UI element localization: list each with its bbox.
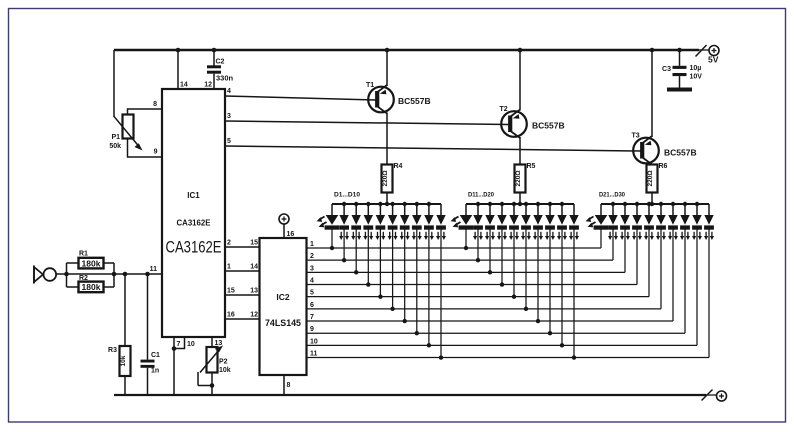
svg-text:2: 2 [227,240,231,247]
junction node on +5V rail at T1 [385,48,390,53]
svg-text:16: 16 [287,231,295,238]
svg-text:10k: 10k [120,355,127,366]
wire T1 collector to R4 [386,113,388,165]
svg-text:BC557B: BC557B [398,96,431,106]
wire 74LS145 output row 6 [307,302,662,309]
transistor T1 [366,82,431,114]
wire IC1 pins 7,10 to ground [172,337,195,395]
svg-text:74LS145: 74LS145 [265,318,302,329]
LED D9 [424,204,434,348]
LED D27 [668,204,678,321]
LED D22 [608,204,618,260]
svg-text:220Ω: 220Ω [647,170,654,186]
svg-text:14: 14 [180,82,188,89]
svg-text:15: 15 [227,288,235,295]
LED D2 [339,204,349,262]
wire IC1 pin 8 to P1 [128,101,163,115]
LED D4 [363,204,373,287]
LED D19 [557,204,567,348]
wire IC1 pin 14 to +5V [178,50,188,89]
LED D15 [509,204,519,299]
LED D18 [545,204,555,335]
svg-text:T2: T2 [500,106,508,113]
wire 74LS145 output row 3 [307,265,626,272]
svg-text:4: 4 [227,88,231,95]
svg-text:220Ω: 220Ω [515,170,522,186]
LED D12 [473,204,483,262]
svg-text:14: 14 [250,264,258,271]
svg-text:D11...D20: D11...D20 [468,192,494,199]
svg-text:10k: 10k [219,367,231,374]
svg-text:BC557B: BC557B [664,148,697,158]
svg-text:180k: 180k [82,283,102,292]
wire IC1 pin 9 to P1 [128,139,163,158]
wire T2 emitter to +5V [519,50,521,111]
wire IC1 pin 13 to P2 [212,337,222,347]
svg-text:2: 2 [310,253,314,260]
resistor R6 [647,163,668,204]
wire IC1 pin 1 to IC2 pin 14 [225,264,260,272]
svg-text:BC557B: BC557B [532,121,565,131]
svg-text:10V: 10V [690,74,703,81]
LED D7 [400,204,410,323]
svg-text:5V: 5V [708,55,719,65]
junction node on +5V rail at T3 [650,48,655,53]
wire IC1 pin 15 to IC2 pin 13 [225,288,260,296]
wire IC1 pin 4 to T1 base [225,88,376,100]
svg-text:R3: R3 [108,347,117,354]
junction node on +5V rail at pin 12 [212,48,217,53]
wire 74LS145 output row 4 [307,278,638,285]
capacitor C3 [662,50,702,88]
svg-text:1n: 1n [151,368,159,375]
svg-text:7: 7 [310,314,314,321]
node input junction [64,272,69,277]
svg-text:180k: 180k [82,259,102,268]
resistor R1 [67,251,115,269]
LED D3 [351,204,361,275]
svg-text:T1: T1 [366,82,374,89]
wire IC2 pin 8 to ground [284,375,291,395]
LED D30 [704,204,714,358]
LED D21 [586,204,609,248]
wire input node to IC1 pin 11 [56,266,162,274]
svg-text:CA3162E: CA3162E [166,239,222,257]
svg-text:7: 7 [177,341,181,348]
LED D17 [533,204,543,323]
wire T3 collector to R6 [651,164,653,166]
svg-text:R1: R1 [79,251,88,258]
wire IC1 pin 16 to IC2 pin 12 [225,312,260,320]
svg-text:D21...D30: D21...D30 [599,192,625,199]
svg-text:9: 9 [154,149,158,156]
svg-text:R2: R2 [79,275,88,282]
svg-text:C2: C2 [216,59,225,66]
wire T2 collector to R5 [519,137,521,165]
wire T3 emitter to +5V [651,50,653,137]
svg-text:IC2: IC2 [276,292,290,302]
node R1R2 output junction [112,272,117,277]
svg-text:IC1: IC1 [187,191,200,200]
resistor R4 [382,163,403,204]
wire 74LS145 output row 5 [307,290,650,297]
svg-text:P2: P2 [219,359,228,366]
node R3 tap [123,272,128,277]
wire 74LS145 output row 9 [307,326,686,333]
LED D16 [521,204,531,311]
svg-text:10: 10 [187,341,195,348]
IC U2 74LS145 [260,238,307,375]
LED D1 [317,204,340,250]
wire 74LS145 output row 2 [307,253,614,260]
ground symbol at C3 [667,88,692,92]
svg-text:220Ω: 220Ω [382,170,389,186]
LED D6 [388,204,398,311]
LED D20 [569,204,579,360]
capacitor C2 [207,59,234,90]
anode rail group 3 (D21...D30) [599,192,709,207]
wire input branch vertical [66,263,68,287]
anode rail group 1 (D1...D10) [332,192,441,207]
wire +5V rail to P1 wiper [113,50,115,117]
capacitor C1 [141,274,161,395]
svg-text:10µ: 10µ [690,65,702,72]
svg-text:3: 3 [227,113,231,120]
svg-text:6: 6 [310,302,314,309]
wire 74LS145 output row 11 [307,351,710,358]
svg-text:9: 9 [310,326,314,333]
svg-text:5: 5 [310,290,314,297]
svg-text:R5: R5 [527,163,536,170]
LED D13 [485,204,495,275]
svg-text:13: 13 [250,288,258,295]
LED D14 [497,204,507,287]
svg-text:16: 16 [227,312,235,319]
svg-text:C3: C3 [662,66,671,73]
transistor T3 [632,133,697,165]
input connector [34,266,56,284]
wire IC1 pin 5 to T3 base [225,138,641,151]
junction node on +5V rail at C3 [677,48,682,53]
svg-text:5: 5 [227,138,231,145]
svg-text:15: 15 [250,240,258,247]
svg-text:CA3162E: CA3162E [177,218,211,228]
svg-text:11: 11 [150,266,158,273]
junction node on +5V rail at pin 14 [176,48,181,53]
svg-text:P1: P1 [111,134,120,141]
resistor R3 [108,274,130,395]
svg-text:4: 4 [310,278,314,285]
svg-text:1: 1 [227,264,231,271]
ground terminal [702,390,727,402]
LED D23 [620,204,630,272]
wire T1 emitter to +5V [386,50,388,86]
LED D10 [436,204,446,360]
LED D8 [412,204,422,335]
svg-text:8: 8 [153,101,157,108]
LED D5 [375,204,385,299]
svg-text:D1...D10: D1...D10 [334,192,360,199]
IC U1 CA3162E [162,89,225,337]
svg-text:12: 12 [250,312,258,319]
svg-text:3: 3 [310,265,314,272]
wire IC1 pin 3 to T2 base [225,113,509,125]
wire 74LS145 output row 10 [307,338,698,345]
svg-text:11: 11 [310,351,318,358]
wire R1R2 join vertical [113,263,115,287]
LED D29 [692,204,702,345]
ground rail (bottom) [114,394,706,396]
svg-text:R6: R6 [659,163,668,170]
resistor R2 [67,275,115,292]
svg-text:12: 12 [204,82,212,89]
svg-text:330n: 330n [216,74,234,83]
LED D26 [656,204,666,309]
svg-text:8: 8 [287,382,291,389]
resistor R5 [515,163,536,204]
svg-text:C1: C1 [151,352,160,359]
wire IC1 pin 2 to IC2 pin 15 [225,240,260,248]
svg-text:T3: T3 [632,133,640,140]
LED D11 [451,204,474,250]
+5V symbol at IC2 pin 16 [279,214,294,238]
transistor T2 [500,106,565,138]
LED D25 [644,204,654,297]
junction node on +5V rail at T2 [518,48,523,53]
wire 74LS145 output row 1 [307,241,602,248]
svg-text:50k: 50k [109,143,121,150]
svg-text:1: 1 [310,241,314,248]
potentiometer P1 [109,115,142,151]
wire IC1 pin 12 upper [204,50,214,89]
LED D28 [680,204,690,333]
+5V terminal [696,45,720,65]
svg-text:10: 10 [310,338,318,345]
+5V supply rail (top) [114,49,699,52]
anode rail group 2 (D11...D20) [466,192,574,207]
potentiometer P2 [198,346,231,396]
node C1 tap [145,272,150,277]
svg-text:R4: R4 [394,163,403,170]
wire 74LS145 output row 7 [307,314,674,321]
LED D24 [632,204,642,285]
